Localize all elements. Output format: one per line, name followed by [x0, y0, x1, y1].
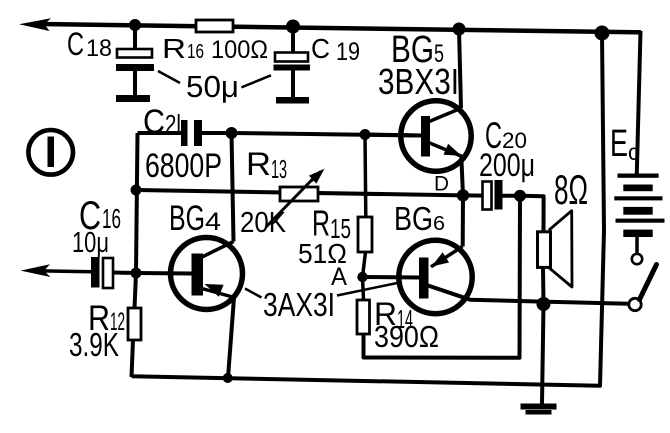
- svg-text:2l: 2l: [165, 109, 181, 139]
- svg-text:C: C: [311, 33, 330, 64]
- svg-text:100Ω: 100Ω: [211, 36, 268, 64]
- svg-text:10μ: 10μ: [72, 227, 109, 259]
- svg-text:C: C: [143, 103, 165, 141]
- svg-text:3BX3I: 3BX3I: [378, 61, 459, 102]
- svg-text:E: E: [610, 123, 628, 165]
- svg-text:18: 18: [86, 35, 112, 62]
- svg-text:C: C: [67, 26, 84, 62]
- svg-text:D: D: [434, 173, 449, 196]
- svg-text:BG: BG: [394, 200, 433, 237]
- svg-text:6: 6: [433, 213, 445, 235]
- svg-text:4: 4: [205, 208, 221, 236]
- svg-text:16: 16: [187, 41, 204, 63]
- svg-text:3AX3I: 3AX3I: [263, 286, 335, 323]
- svg-text:50μ: 50μ: [186, 69, 239, 104]
- svg-text:20K: 20K: [240, 207, 287, 239]
- svg-text:c: c: [628, 139, 639, 165]
- svg-text:R: R: [162, 33, 186, 64]
- svg-text:6800P: 6800P: [145, 147, 222, 185]
- svg-text:R: R: [246, 146, 271, 182]
- svg-text:BG: BG: [169, 199, 205, 238]
- svg-text:13: 13: [271, 154, 287, 184]
- svg-text:3.9K: 3.9K: [69, 326, 119, 363]
- svg-text:8Ω: 8Ω: [554, 166, 588, 213]
- svg-text:200μ: 200μ: [479, 147, 535, 183]
- svg-text:19: 19: [336, 38, 360, 66]
- svg-text:390Ω: 390Ω: [374, 319, 439, 354]
